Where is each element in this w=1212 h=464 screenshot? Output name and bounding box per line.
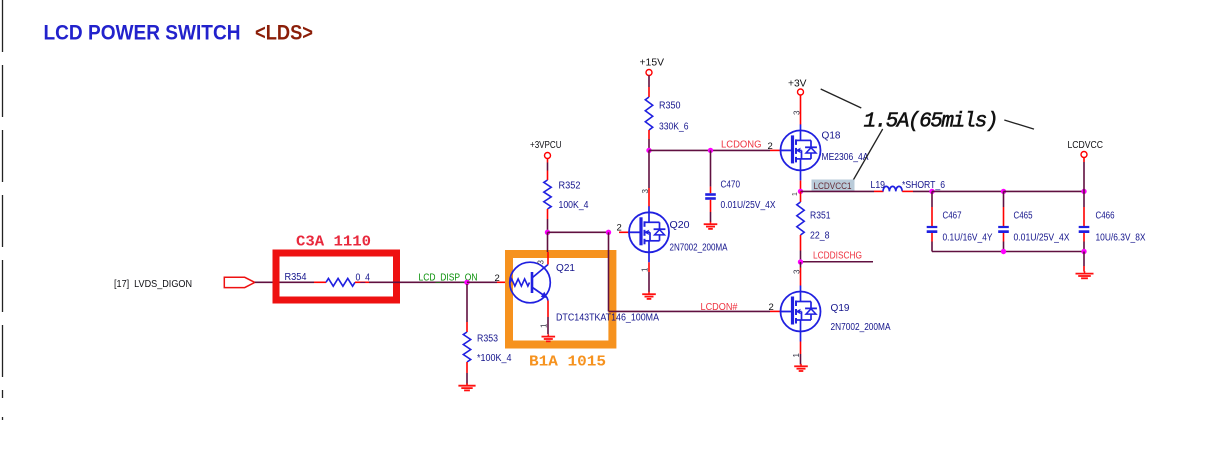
net label LCDONG — [721, 140, 762, 151]
net label LCD_DISP_ON — [419, 273, 478, 284]
leader line to LCDVCC1 — [853, 129, 883, 181]
node C465 top junction — [1001, 189, 1006, 194]
svg-text:Q19: Q19 — [831, 303, 850, 314]
C467 ref label — [943, 211, 962, 222]
svg-text:R352: R352 — [559, 181, 581, 192]
power LCDVCC label — [1068, 140, 1104, 151]
wire +3V to Q18 — [800, 95, 802, 125]
port [17] LVDS_DIGON label — [114, 279, 192, 290]
wire LCDDISCHG to Q19 — [800, 262, 802, 286]
power +3V symbol — [798, 89, 804, 95]
svg-text:R354: R354 — [285, 272, 307, 283]
wire Q19 source to ground — [800, 354, 802, 365]
svg-text:C467: C467 — [943, 211, 962, 222]
wire C467 bottom — [931, 233, 933, 252]
R353 value *100K_4 — [477, 353, 512, 364]
ground Q21 — [542, 334, 556, 341]
L19 value *SHORT_6 — [902, 180, 945, 191]
wire LCDONG down to Q20 — [648, 150, 650, 188]
R353 ref label — [477, 334, 498, 345]
svg-text:C466: C466 — [1096, 211, 1115, 222]
svg-text:1: 1 — [792, 353, 801, 358]
svg-text:0.01U/25V_4X: 0.01U/25V_4X — [1014, 233, 1070, 244]
wire Q20 source to ground — [648, 272, 650, 292]
wire down to C470 — [710, 150, 712, 193]
wire Q21 emitter to ground — [547, 317, 549, 334]
svg-text:2N7002_200MA: 2N7002_200MA — [670, 243, 728, 254]
title LCD POWER SWITCH — [44, 21, 241, 45]
svg-text:LCDVCC: LCDVCC — [1068, 140, 1104, 151]
svg-text:1.5A(65mils): 1.5A(65mils) — [864, 111, 999, 134]
svg-text:1: 1 — [792, 192, 799, 196]
resistor R353 — [463, 322, 470, 373]
svg-text:Q21: Q21 — [556, 263, 575, 274]
wire C466 top — [1083, 191, 1085, 226]
wire C465 bottom — [1003, 233, 1005, 252]
capacitor C467 — [927, 226, 938, 233]
node LCDDISCHG junction — [798, 259, 803, 264]
inductor L19 — [883, 186, 902, 191]
svg-text:10U/6.3V_8X: 10U/6.3V_8X — [1096, 233, 1146, 244]
wire C465 top — [1003, 191, 1005, 226]
svg-text:0.01U/25V_4X: 0.01U/25V_4X — [721, 200, 776, 211]
net label LCDDISCHG — [813, 251, 862, 262]
wire L19 to C467 node — [902, 190, 932, 192]
Q20 source pin 1 label — [641, 267, 650, 272]
wire top rail C465-C466 — [1004, 190, 1085, 192]
svg-text:C470: C470 — [721, 180, 741, 191]
transistor Q19 — [781, 286, 821, 342]
net label LCDON# — [701, 302, 738, 313]
svg-text:22_8: 22_8 — [810, 231, 830, 242]
C466 value 10U/6.3V_8X — [1096, 233, 1146, 244]
C465 value 0.01U/25V_4X — [1014, 233, 1070, 244]
Q18 source pin 3 label — [793, 110, 802, 115]
svg-text:+15V: +15V — [640, 58, 665, 69]
net stub LCDDISCHG — [803, 261, 873, 263]
power +3VPCU symbol — [545, 153, 551, 159]
wire node down to R353 — [466, 284, 468, 322]
wire LCDVCC1 down to R351 — [800, 191, 802, 202]
wire R352 to node — [547, 219, 549, 230]
Q21 collector stub — [547, 252, 549, 265]
highlight box B1A 1015 — [509, 254, 612, 345]
R352 value 100K_4 — [559, 200, 589, 211]
wire bottom rail to ground — [1083, 252, 1085, 272]
Q20 value 2N7002_200MA — [670, 243, 728, 254]
Q20 source stub — [648, 262, 650, 272]
svg-text:1: 1 — [641, 267, 650, 272]
transistor Q21 (DTC143) — [510, 262, 551, 303]
svg-text:R350: R350 — [659, 101, 681, 112]
node C466 top junction — [1081, 189, 1086, 194]
Q18 drain stub — [800, 181, 802, 190]
wire node down to Q21 collector — [547, 232, 549, 252]
Q19 value 2N7002_200MA — [831, 322, 891, 333]
wire +15V to R350 — [648, 76, 650, 98]
Q21 base pin 2 — [495, 273, 500, 284]
C3A 1110 label — [296, 234, 371, 251]
C467 value 0.1U/16V_4Y — [943, 233, 993, 244]
svg-text:100K_4: 100K_4 — [559, 200, 589, 211]
Q20 drain pin 3 label — [641, 189, 650, 194]
R350 ref label — [659, 101, 681, 112]
transistor Q20 — [629, 206, 669, 262]
Q18 value ME2306_4A — [822, 152, 869, 163]
svg-text:L19: L19 — [871, 180, 886, 191]
resistor R351 — [797, 202, 804, 251]
svg-text:*100K_4: *100K_4 — [477, 353, 512, 364]
Q20 ref label — [670, 220, 690, 231]
C470 ref label — [721, 180, 741, 191]
svg-text:DTC143TKAT146_100MA: DTC143TKAT146_100MA — [556, 313, 659, 324]
transistor Q18 (PMOS) — [781, 124, 821, 180]
svg-text:LCDONG: LCDONG — [721, 140, 762, 151]
R354 value 0_4 — [356, 273, 371, 284]
leader line from +3V — [821, 89, 862, 108]
ground Q20 — [642, 292, 656, 299]
svg-text:*SHORT_6: *SHORT_6 — [902, 180, 945, 191]
node C466 bottom junction — [1081, 249, 1086, 254]
resistor R354 — [314, 278, 369, 286]
svg-text:0_4: 0_4 — [356, 273, 371, 284]
R354 ref label — [285, 272, 307, 283]
svg-text:R351: R351 — [810, 211, 831, 222]
wire C466 bottom — [1083, 233, 1085, 252]
node LCDVCC1 junction — [798, 189, 803, 194]
wire C470 to ground — [710, 200, 712, 222]
net label LCDVCC1 (highlighted) — [812, 180, 855, 193]
title <LDS> — [255, 21, 313, 45]
Q19 source stub — [800, 342, 802, 355]
svg-text:LCDON#: LCDON# — [701, 302, 738, 313]
svg-text:LCD POWER SWITCH: LCD POWER SWITCH — [44, 21, 241, 45]
Q21 collector pin 3 label — [537, 260, 546, 265]
Q21 value DTC143TKAT146_100MA — [556, 313, 659, 324]
node LCDONG junction — [646, 148, 651, 153]
ground Q19 — [794, 364, 808, 371]
svg-text:LCDDISCHG: LCDDISCHG — [813, 251, 862, 262]
wire R353 to ground — [466, 373, 468, 385]
wire R350 to LCDONG node — [648, 139, 650, 149]
Q18 gate pin 2 label — [768, 141, 773, 152]
node C467 top junction — [929, 189, 934, 194]
Q18 gate stub — [770, 149, 782, 151]
svg-text:+3V: +3V — [788, 79, 807, 90]
Q19 gate stub — [770, 310, 782, 312]
leader line right tail — [1004, 120, 1034, 129]
svg-text:330K_6: 330K_6 — [659, 122, 689, 133]
wire node to Q20-gate node — [548, 231, 609, 233]
C470 value 0.01U/25V_4X — [721, 200, 776, 211]
wire top rail C467-C465 — [932, 190, 1004, 192]
capacitor C470 — [705, 193, 716, 200]
node C465 bottom junction — [1001, 249, 1006, 254]
wire LCDON# run — [609, 310, 771, 312]
svg-text:B1A 1015: B1A 1015 — [529, 354, 606, 371]
highlight box C3A 1110 — [276, 253, 397, 300]
wire down to LCDON# run — [608, 232, 610, 311]
node C470 junction — [708, 148, 713, 153]
R350 value 330K_6 — [659, 122, 689, 133]
svg-text:<LDS>: <LDS> — [255, 21, 313, 45]
Q20 drain stub — [648, 188, 650, 207]
svg-text:Q18: Q18 — [822, 131, 841, 142]
sheet border (dashed) — [2, 0, 4, 420]
Q20 gate pin 2 label — [617, 223, 622, 234]
resistor R350 — [645, 97, 652, 139]
Q21 ref label — [556, 263, 575, 274]
svg-text:2N7002_200MA: 2N7002_200MA — [831, 322, 891, 333]
wire bottom rail — [932, 251, 1084, 253]
svg-text:1: 1 — [540, 323, 549, 328]
C465 ref label — [1014, 211, 1033, 222]
svg-text:C465: C465 — [1014, 211, 1033, 222]
power +15V label — [640, 58, 665, 69]
port connector arrow — [224, 277, 255, 287]
Q19 drain pin 3 label — [793, 269, 802, 274]
ground R353 — [458, 383, 475, 390]
ground C470 — [704, 222, 718, 229]
node LCDON# branch junction — [606, 230, 611, 235]
power LCDVCC symbol — [1081, 152, 1087, 158]
svg-text:0.1U/16V_4Y: 0.1U/16V_4Y — [943, 233, 993, 244]
svg-text:C3A 1110: C3A 1110 — [296, 234, 371, 251]
node LCD_DISP_ON junction — [464, 280, 469, 285]
capacitor C465 — [998, 226, 1009, 233]
power +15V symbol — [646, 70, 652, 76]
svg-text:[17] LVDS_DIGON: [17] LVDS_DIGON — [114, 279, 192, 290]
B1A 1015 label — [529, 354, 606, 371]
R351 ref label — [810, 211, 831, 222]
svg-text:ME2306_4A: ME2306_4A — [822, 152, 869, 163]
wire LCDVCC down — [1083, 158, 1085, 192]
annotation 1.5A(65mils) — [864, 111, 999, 134]
C466 ref label — [1096, 211, 1115, 222]
wire LCDONG run — [649, 149, 770, 151]
node R352/Q21/Q20 junction — [545, 230, 550, 235]
Q18 ref label — [822, 131, 841, 142]
svg-text:Q20: Q20 — [670, 220, 690, 231]
capacitor C466 — [1079, 226, 1090, 233]
Q20 gate stub — [619, 231, 631, 233]
svg-text:R353: R353 — [477, 334, 498, 345]
resistor R352 — [544, 180, 551, 219]
svg-text:3: 3 — [537, 260, 546, 265]
Q19 gate pin 2 label — [769, 302, 774, 313]
R351 value 22_8 — [810, 231, 830, 242]
svg-text:+3VPCU: +3VPCU — [530, 140, 562, 151]
L19 ref label — [871, 180, 886, 191]
Q21 emitter stub — [547, 301, 549, 318]
Q21 emitter pin 1 label — [540, 323, 549, 328]
wire LCDVCC1 to L19 — [801, 190, 884, 192]
R352 ref label — [559, 181, 581, 192]
wire C467 top — [931, 191, 933, 226]
Q19 ref label — [831, 303, 850, 314]
wire +3VPCU to R352 — [547, 159, 549, 181]
Q19 source pin 1 label — [792, 353, 801, 358]
svg-text:LCDVCC1: LCDVCC1 — [814, 181, 852, 192]
power +3VPCU label — [530, 140, 562, 151]
ground output rail — [1076, 271, 1094, 278]
power +3V label — [788, 79, 807, 90]
wire R351 to LCDDISCHG node — [800, 251, 802, 261]
wire LVDS_DIGON to R354 — [255, 281, 314, 283]
wire R354 to LCD_DISP_ON node — [369, 281, 467, 283]
wire node to Q21 base — [467, 281, 510, 283]
Q18 drain pin 1 label — [792, 192, 799, 196]
